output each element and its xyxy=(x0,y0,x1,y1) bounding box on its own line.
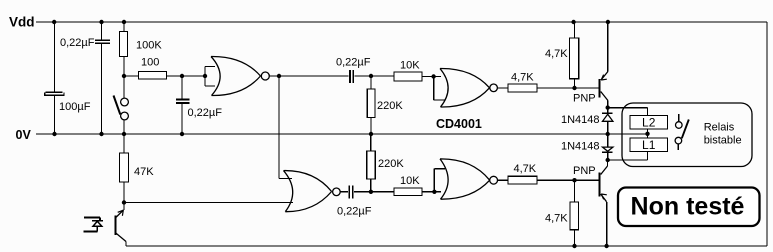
svg-text:CD4001: CD4001 xyxy=(436,117,482,131)
svg-text:0,22µF: 0,22µF xyxy=(337,206,372,218)
svg-text:PNP: PNP xyxy=(573,93,596,105)
svg-text:47K: 47K xyxy=(134,166,154,178)
svg-text:Vdd: Vdd xyxy=(9,15,35,30)
svg-text:10K: 10K xyxy=(400,60,420,72)
svg-text:100K: 100K xyxy=(136,40,162,52)
svg-text:4,7K: 4,7K xyxy=(514,163,537,175)
svg-text:0,22µF: 0,22µF xyxy=(336,57,371,69)
svg-text:1N4148: 1N4148 xyxy=(561,141,600,153)
svg-text:220K: 220K xyxy=(377,100,403,112)
svg-text:Relais: Relais xyxy=(704,122,735,134)
svg-text:100: 100 xyxy=(141,57,159,69)
svg-text:4,7K: 4,7K xyxy=(545,213,568,225)
svg-text:0,22µF: 0,22µF xyxy=(60,37,95,49)
svg-text:Non testé: Non testé xyxy=(631,193,745,221)
svg-text:L2: L2 xyxy=(642,116,656,130)
svg-text:PNP: PNP xyxy=(573,165,596,177)
svg-text:4,7K: 4,7K xyxy=(511,71,534,83)
svg-text:4,7K: 4,7K xyxy=(545,48,568,60)
svg-text:100µF: 100µF xyxy=(59,101,91,113)
svg-text:10K: 10K xyxy=(400,175,420,187)
svg-text:220K: 220K xyxy=(378,158,404,170)
svg-text:1N4148: 1N4148 xyxy=(561,114,600,126)
svg-text:0V: 0V xyxy=(16,128,32,142)
svg-text:0,22µF: 0,22µF xyxy=(188,107,223,119)
svg-text:L1: L1 xyxy=(642,138,656,152)
svg-text:bistable: bistable xyxy=(704,134,742,146)
